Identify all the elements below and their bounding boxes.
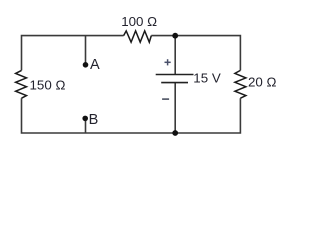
node A dot <box>83 62 89 68</box>
wire top-right segment <box>151 36 240 71</box>
junction dot top <box>172 33 178 39</box>
svg-text:B: B <box>89 112 99 128</box>
battery 15V short plate <box>161 82 188 84</box>
resistor 20 ohm label <box>248 74 277 89</box>
svg-text:100 Ω: 100 Ω <box>121 14 157 29</box>
wire bottom segment <box>22 98 241 133</box>
svg-text:20 Ω: 20 Ω <box>248 74 277 89</box>
battery 15V long plate <box>156 74 194 76</box>
node A stub wire <box>85 36 87 63</box>
junction dot bottom <box>172 130 178 136</box>
resistor 150 ohm label <box>30 78 66 93</box>
wire battery branch top <box>174 36 176 75</box>
resistor 20 ohm zigzag <box>235 70 246 98</box>
svg-text:15 V: 15 V <box>193 70 221 85</box>
svg-text:A: A <box>90 57 100 73</box>
battery plus sign <box>165 59 171 65</box>
node B label <box>89 112 99 128</box>
wire battery branch bottom <box>174 83 176 133</box>
wire top-left segment <box>22 36 124 71</box>
battery minus sign <box>162 98 169 100</box>
resistor 150 ohm zigzag <box>16 70 27 98</box>
node B stub wire <box>85 120 87 133</box>
node B dot <box>82 116 88 122</box>
svg-text:150 Ω: 150 Ω <box>30 78 66 93</box>
node A label <box>90 57 100 73</box>
resistor 100 ohm label <box>121 14 157 29</box>
resistor 100 ohm zigzag <box>124 31 152 42</box>
battery 15V label <box>193 70 221 85</box>
